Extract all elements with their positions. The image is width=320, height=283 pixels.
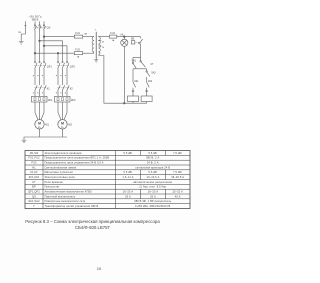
wire control split	[133, 57, 141, 59]
coil K1	[132, 90, 135, 93]
svg-text:QS: QS	[32, 194, 36, 198]
switch QS linkage	[34, 27, 46, 29]
node secondary tap 24	[98, 45, 101, 47]
transformer T primary	[92, 37, 94, 54]
svg-text:SA1,SA2: SA1,SA2	[28, 199, 40, 203]
svg-text:Предохранитель цепи управления: Предохранитель цепи управления 24 В 0,5 …	[45, 161, 104, 165]
ground motors PE	[22, 140, 27, 143]
thermal relay KK1	[32, 96, 48, 102]
wire lamp to rail	[123, 46, 125, 103]
svg-text:сигнальная арматура 24 В: сигнальная арматура 24 В	[135, 165, 170, 169]
svg-text:Предохранители цепи управления: Предохранители цепи управления ВП1 1 А, …	[45, 156, 110, 160]
wire control bottom rail	[128, 102, 147, 104]
switch QS pole 3	[43, 25, 44, 26]
svg-text:КК2: КК2	[148, 80, 153, 83]
svg-text:К1: К1	[132, 90, 135, 93]
svg-text:380 В 3Ф, 1 ВР расцепитель: 380 В 3Ф, 1 ВР расцепитель	[134, 199, 172, 203]
wire secondary bottom tap	[98, 56, 127, 104]
switch QS pole 1	[34, 25, 35, 26]
lamp HL	[121, 39, 128, 46]
wire N conductor	[24, 25, 26, 27]
breaker QF2 pole c	[66, 62, 68, 64]
svg-text:10: 10	[97, 266, 102, 271]
svg-text:1А: 1А	[112, 39, 115, 42]
breaker QF2 pole a	[57, 62, 59, 64]
svg-text:5,5 кВт: 5,5 кВт	[148, 170, 158, 174]
supply label ~3N 50Hz 380V	[29, 14, 42, 21]
thermal relay KK2	[55, 96, 71, 102]
breaker QF2 linkage	[57, 65, 69, 67]
motor M1	[35, 120, 44, 129]
wire lamp drop	[123, 37, 125, 40]
motor M2	[58, 120, 67, 129]
svg-text:16–25 А: 16–25 А	[123, 190, 134, 194]
wire FU1 feed	[44, 36, 74, 38]
svg-text:Т: Т	[95, 29, 97, 31]
svg-text:1А: 1А	[77, 56, 80, 59]
svg-text:HL: HL	[32, 165, 36, 169]
svg-text:0,283 кВА, 380/230/36/24 В: 0,283 кВА, 380/230/36/24 В	[135, 204, 170, 208]
node L3 tap to FU1	[43, 36, 45, 38]
3-cell dividers rows 1,5,6,9,10	[140, 151, 142, 156]
wire M1 frame to PE	[39, 129, 41, 137]
svg-text:24: 24	[102, 47, 105, 49]
svg-text:Прессостат: Прессостат	[45, 185, 61, 189]
svg-text:1,6–11 А: 1,6–11 А	[122, 175, 133, 179]
svg-text:СБ4/Ф-500.LB75Т: СБ4/Ф-500.LB75Т	[75, 225, 111, 230]
breaker QF1 pole b	[39, 62, 41, 64]
fuse FU1	[74, 35, 82, 38]
svg-text:Магнитные пускатели: Магнитные пускатели	[45, 170, 74, 174]
node secondary tap 36	[98, 39, 101, 41]
svg-text:QF1,QF2: QF1,QF2	[28, 190, 40, 194]
svg-text:FU1: FU1	[75, 32, 80, 35]
svg-text:36: 36	[102, 42, 105, 44]
wire phase L1 top	[34, 21, 36, 24]
wire PE rail motors	[24, 137, 67, 140]
svg-text:КК1: КК1	[134, 80, 139, 83]
svg-text:25–32 А: 25–32 А	[172, 190, 183, 194]
svg-text:4А: 4А	[84, 33, 87, 36]
wire branch2-a down	[57, 53, 59, 62]
svg-text:3~: 3~	[38, 125, 41, 129]
fuse FU2	[74, 52, 82, 55]
svg-text:5,5 кВт: 5,5 кВт	[123, 170, 133, 174]
svg-text:КТ: КТ	[151, 63, 154, 66]
svg-text:380 В, 2 А: 380 В, 2 А	[146, 156, 159, 160]
contactor K2 contacts	[58, 85, 61, 91]
wire secondary top tap	[98, 36, 109, 38]
svg-text:КТ: КТ	[32, 180, 36, 184]
svg-text:Пакетный выключатель: Пакетный выключатель	[45, 194, 76, 198]
svg-text:3~: 3~	[61, 125, 64, 129]
terminal number marks	[33, 75, 66, 93]
svg-text:11 бар, откл. 8,5 бар: 11 бар, откл. 8,5 бар	[139, 185, 166, 189]
transformer T secondary	[98, 37, 100, 55]
svg-text:К2: К2	[70, 86, 74, 90]
pressure switch SB actuator	[131, 41, 134, 44]
ground PE supply	[19, 42, 24, 45]
svg-text:FU1,FU2: FU1,FU2	[28, 156, 40, 160]
svg-text:М1,М2: М1,М2	[30, 151, 39, 155]
svg-text:К1: К1	[47, 86, 51, 90]
svg-text:Автоматические выключатели АП5: Автоматические выключатели АП50	[45, 190, 93, 194]
svg-text:10–16,5 А: 10–16,5 А	[147, 175, 160, 179]
node lamp tap	[124, 36, 126, 38]
svg-text:FU3: FU3	[31, 161, 37, 165]
switch QS pole 2	[39, 25, 40, 26]
svg-text:40 А: 40 А	[175, 194, 181, 198]
wire M2 frame to PE	[62, 129, 64, 137]
node lamp rail junction	[124, 102, 126, 104]
svg-text:Светосигнальная лампа: Светосигнальная лампа	[45, 165, 77, 169]
svg-text:380 В: 380 В	[32, 18, 39, 22]
breaker QF1 linkage	[34, 65, 46, 67]
svg-text:М1: М1	[45, 122, 49, 126]
contactor K1 contacts	[35, 85, 38, 91]
wire phase L2 top	[39, 21, 41, 24]
svg-text:М2: М2	[68, 122, 72, 126]
svg-text:5,5 кВт: 5,5 кВт	[148, 151, 158, 155]
transformer T core	[95, 32, 97, 58]
node PE label	[18, 32, 21, 34]
svg-text:К1,К2: К1,К2	[30, 170, 38, 174]
svg-text:QS: QS	[47, 26, 51, 30]
contact KK2 NC	[147, 82, 150, 87]
svg-text:25 А: 25 А	[125, 194, 131, 198]
svg-text:Т: Т	[33, 204, 35, 208]
svg-text:Электротепловые реле: Электротепловые реле	[45, 175, 76, 179]
breaker QF2 pole b	[62, 62, 64, 64]
svg-text:FU3: FU3	[110, 32, 115, 35]
breaker QF1 pole c	[43, 62, 45, 64]
wire L1 to FU2 and branch2-a	[35, 52, 74, 54]
svg-text:7,5 кВт: 7,5 кВт	[173, 170, 183, 174]
node branch2-a tap	[57, 52, 59, 54]
svg-text:Электродвигатели приводов: Электродвигатели приводов	[45, 151, 83, 155]
svg-text:SA2: SA2	[151, 72, 156, 75]
svg-text:КК2: КК2	[71, 98, 76, 102]
wire control feed down	[140, 37, 142, 39]
wire M1 leads	[39, 102, 41, 120]
wire phase L3 top	[43, 21, 45, 24]
caption	[25, 219, 160, 230]
switch SB contact	[139, 43, 140, 44]
svg-text:Трансформатор цепей управления: Трансформатор цепей управления 380 В	[45, 204, 99, 208]
svg-text:5,5 кВт: 5,5 кВт	[123, 151, 133, 155]
svg-text:автоматическое расцепление: автоматическое расцепление	[133, 181, 172, 184]
svg-text:18–30,5 А: 18–30,5 А	[171, 175, 184, 179]
svg-text:ВР: ВР	[32, 185, 36, 189]
wire M2 leads	[62, 102, 64, 120]
fuse FU3	[109, 35, 117, 38]
wire merge	[136, 68, 146, 70]
svg-text:25 А: 25 А	[150, 194, 156, 198]
node L3 tap branch2	[43, 45, 45, 47]
contact KK1 NC	[133, 82, 136, 87]
svg-text:Реле времени: Реле времени	[45, 180, 64, 184]
node L2 tap branch2	[39, 40, 41, 42]
parts table	[25, 151, 190, 209]
breaker QF1 pole a	[34, 62, 36, 64]
svg-text:КК1,КК2: КК1,КК2	[29, 175, 40, 179]
svg-text:КК1: КК1	[48, 98, 53, 102]
svg-text:FU2: FU2	[75, 48, 80, 51]
svg-text:SB: SB	[131, 38, 135, 41]
svg-text:24 В, 2 А: 24 В, 2 А	[147, 161, 159, 165]
ground transformer core	[95, 58, 97, 60]
svg-text:7,5 кВт: 7,5 кВт	[173, 151, 183, 155]
svg-text:QF1: QF1	[47, 64, 53, 68]
svg-text:16–25 А: 16–25 А	[148, 190, 159, 194]
svg-text:Поворотные выключатели сети: Поворотные выключатели сети	[45, 199, 86, 203]
coil K2	[145, 90, 148, 93]
svg-text:QF2: QF2	[70, 64, 76, 68]
switch SA1	[132, 58, 134, 63]
wire L3 to branch2-c	[44, 46, 67, 63]
svg-text:Рисунок 8.3 – Схема электричес: Рисунок 8.3 – Схема электрическая принци…	[25, 219, 160, 224]
switch SA2	[146, 71, 147, 72]
svg-text:SA1: SA1	[132, 59, 137, 62]
wire L2 to branch2-b	[40, 41, 63, 63]
node L1 tap	[34, 52, 36, 54]
svg-text:К2: К2	[145, 90, 148, 93]
contact K1.1	[140, 58, 142, 61]
